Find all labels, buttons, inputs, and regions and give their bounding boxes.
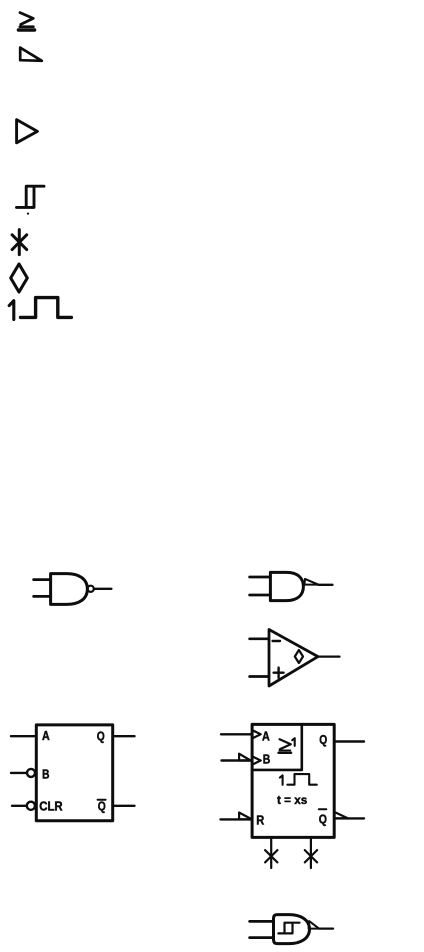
U2 input B bubble [27,769,35,777]
wire: U3 input R [221,818,253,820]
wire: U2 input CLR [12,805,27,807]
U3 input B dynamic triangle [252,756,261,764]
qualifying symbol: OR threshold (greater-or-equal with double bar) [18,13,34,30]
U3 output Q-bar polarity wedge [334,812,348,819]
svg-text:B: B [263,752,271,766]
U3 pin 2 asterisk [305,850,317,862]
wire: N1 input b [34,595,51,598]
wire: U3 bottom pin 1 [270,837,272,868]
svg-text:Q: Q [319,812,327,826]
diamond (open-collector) qualifying symbol [11,264,28,292]
U3 input B polarity wedge [239,754,251,761]
N1 output bubble [88,586,94,592]
wire: N1 output [94,588,112,590]
svg-text:Q: Q [97,729,105,743]
wire: U2 output Q [113,735,135,737]
svg-text:t = xs: t = xs [277,793,308,807]
polarity indicator (wedge) symbol [20,48,42,61]
svg-text:Q: Q [319,733,327,747]
monostable qualifying symbol: 1 with single pulse [9,298,71,320]
dynamic input (open triangle) symbol [17,120,38,143]
wire: U3 output Q [334,740,364,742]
wire: N1 input a [34,578,51,581]
N2 polarity wedge [305,579,319,585]
Schmitt AND gate N3 [274,915,310,944]
svg-text:A: A [42,729,50,743]
svg-text:A: A [262,729,270,743]
svg-text:B: B [42,768,50,782]
U3 monostable pulse waveform [287,774,316,785]
U3 monostable pulse qualifier: 1 [280,775,283,784]
wire: U3 input A [221,733,252,735]
AND gate with polarity indicator N2 [270,572,303,600]
N3 output polarity wedge [309,921,319,929]
U3 Q-bar overbar [319,808,327,810]
hysteresis (Schmitt trigger) symbol [17,186,45,207]
wire: U3 output Q-bar [334,817,364,819]
wire: U3 input B [222,759,253,761]
U3 input R polarity wedge [239,813,252,820]
svg-text:Q: Q [98,799,106,813]
flip-flop U2 body [36,725,112,821]
U1 diamond qualifier [295,650,303,663]
wire: U1 non-inverting input [250,675,269,678]
speck below hysteresis symbol [27,213,29,215]
comparator U1 [269,630,318,687]
NAND gate N1 [51,574,88,605]
monostable U3 outer body [252,724,334,837]
svg-text:R: R [256,814,264,828]
U3 input A dynamic triangle [252,730,261,738]
U3 inner OR-section box [252,724,302,770]
U3 label greater-or-equal-1 [279,738,295,753]
wire: U1 inverting input [250,637,269,640]
wire: U2 output Q-bar [113,805,135,807]
wire: N3 input a [250,920,274,923]
wire: U2 input A [11,735,36,737]
N3 hysteresis qualifier [278,923,299,934]
asterisk qualifying symbol [12,230,27,255]
wire: N3 output [319,927,333,929]
U3 pin 1 asterisk [265,850,277,862]
wire: N2 input b [250,594,271,597]
wire: N3 input b [250,936,274,939]
wire: N2 output [318,584,332,586]
wire: N2 input a [250,576,271,579]
wire: U1 output [318,655,340,657]
svg-text:CLR: CLR [39,799,63,813]
wire: U3 bottom pin 2 [310,837,312,868]
U2 input CLR bubble [27,802,35,810]
wire: U2 input B [11,772,27,774]
U1 minus sign [273,640,280,642]
U1 plus sign [274,668,284,678]
U2 Q-bar overbar [98,799,106,801]
